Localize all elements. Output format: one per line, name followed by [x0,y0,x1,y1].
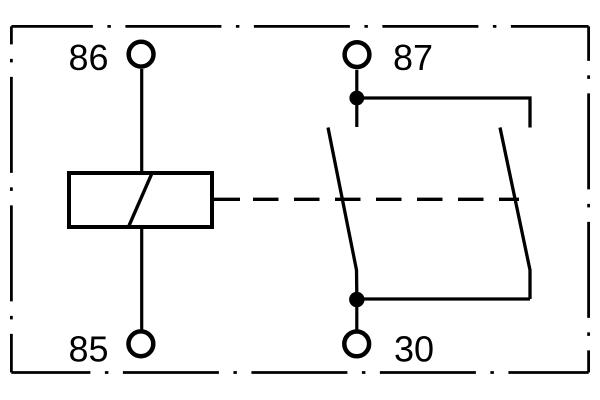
wire 87 bus to right contact [357,98,530,128]
coil diagonal stroke [128,172,153,228]
wire 30 bus to right contact [357,297,530,300]
left contact blade [328,128,357,296]
svg-text:85: 85 [69,329,109,370]
symbol boundary bottom edge [11,371,588,374]
svg-text:30: 30 [394,329,434,370]
relay coil K1 [69,173,212,227]
right contact blade [500,128,530,300]
symbol boundary left edge [10,26,13,372]
terminal circle 85 [129,331,154,356]
svg-text:87: 87 [393,37,433,78]
actuation link (dashed) from coil to contacts [214,198,240,201]
wire 86 to coil [140,69,143,173]
symbol boundary (dash-dot frame) top edge [11,25,588,28]
wire coil to 85 [140,227,143,330]
svg-text:86: 86 [69,37,109,78]
junction node (87 bus) [349,91,364,106]
terminal circle 86 [129,42,154,67]
terminal circle 30 [344,332,369,357]
fixed contact stub (left switch) [355,98,358,127]
junction node (30 bus) [349,292,364,307]
terminal circle 87 [345,42,370,67]
symbol boundary right edge [587,26,590,372]
wire 87 to junction [355,70,358,98]
wire junction to 30 [355,300,358,331]
